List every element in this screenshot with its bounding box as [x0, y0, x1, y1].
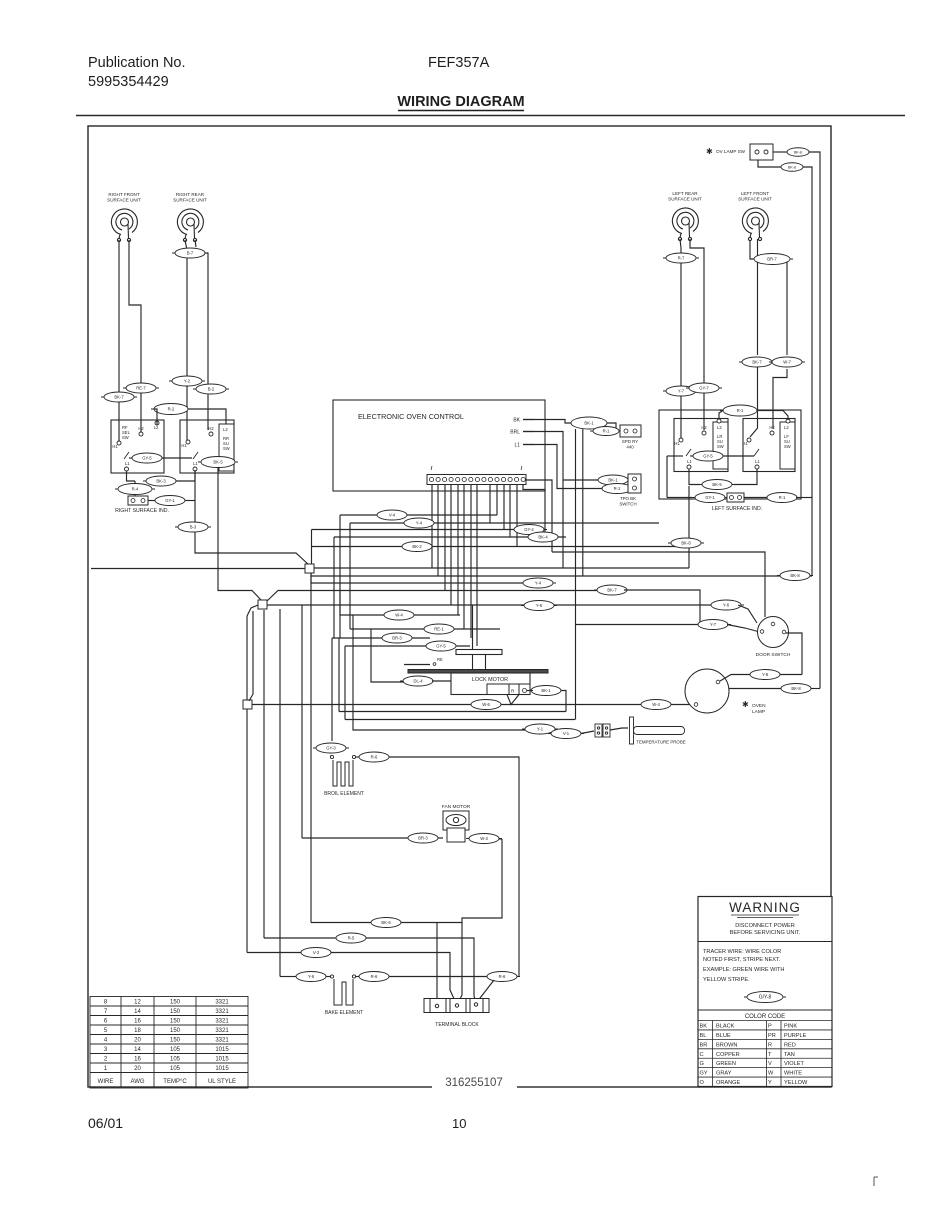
svg-text:105: 105 — [170, 1057, 181, 1063]
wire temp probe bus — [353, 728, 525, 730]
wire bus 605 — [263, 604, 714, 606]
wire LR coil H2 drop — [690, 239, 704, 430]
wire RR coil H2 drop — [205, 253, 208, 430]
svg-text:BK-6: BK-6 — [381, 920, 391, 925]
wire label BR-3 fan — [405, 833, 441, 843]
right rear switch box — [180, 420, 234, 473]
wire lock motor dip — [507, 695, 519, 705]
broil terminal right — [352, 755, 355, 758]
svg-text:150: 150 — [170, 1009, 181, 1015]
svg-text:H1: H1 — [112, 444, 118, 449]
pin H2 RR switch — [208, 426, 214, 436]
wire BK-5 down to node B — [218, 468, 262, 602]
temperature probe body — [630, 717, 685, 744]
wire label BK-8 right — [777, 571, 813, 581]
label SPD RY 440 — [622, 439, 638, 449]
svg-text:BR-3: BR-3 — [392, 636, 402, 641]
label left rear surface unit — [668, 191, 702, 202]
svg-text:Y-2: Y-2 — [184, 379, 191, 384]
svg-text:V-1: V-1 — [563, 731, 570, 736]
svg-text:BK-7: BK-7 — [607, 588, 617, 593]
svg-text:BK: BK — [513, 418, 520, 424]
wire label Y-6 bus605 — [521, 601, 557, 611]
wire eoc right exit — [526, 480, 552, 552]
pin H1 LF switch — [742, 438, 751, 446]
svg-text:BK-3: BK-3 — [156, 479, 166, 484]
svg-text:105: 105 — [170, 1047, 181, 1053]
svg-text:440: 440 — [626, 444, 634, 449]
color code divider — [698, 1009, 832, 1011]
wire bus 615 — [340, 614, 460, 616]
wire L1 to tpo — [523, 445, 602, 489]
svg-text:BK-1: BK-1 — [584, 421, 594, 426]
label right rear surface unit — [173, 192, 207, 203]
svg-text:14: 14 — [134, 1009, 141, 1015]
wire vertical 280 — [279, 609, 281, 977]
wire lamp BK-8 row — [729, 688, 781, 690]
svg-text:YELLOW STRIPE.: YELLOW STRIPE. — [703, 977, 750, 983]
svg-text:DL-4: DL-4 — [413, 679, 423, 684]
svg-text:UL STYLE: UL STYLE — [208, 1079, 236, 1085]
wire LR L1 long drop — [688, 486, 690, 568]
svg-text:B-3: B-3 — [190, 525, 197, 530]
wire BK-8 to vertical — [811, 688, 820, 690]
wire ov lamp sw bottom — [758, 160, 781, 167]
wire label R-6 bake left — [356, 972, 392, 982]
svg-text:LEFT FRONT: LEFT FRONT — [741, 191, 769, 196]
svg-text:V-3: V-3 — [313, 950, 320, 955]
wire label R-1 top — [720, 405, 760, 416]
svg-text:B-7: B-7 — [187, 251, 194, 256]
wire bus 583 — [311, 576, 547, 583]
svg-text:W-4: W-4 — [652, 702, 660, 707]
lock motor RE contact — [433, 657, 443, 665]
wire bus 922 — [311, 922, 462, 924]
svg-text:L2: L2 — [154, 425, 159, 430]
svg-text:H1: H1 — [742, 441, 748, 446]
lock motor shaft — [473, 655, 486, 670]
wire LF coil H2 drop lower — [773, 369, 787, 429]
wire to right vertical — [796, 497, 812, 499]
svg-text:R-6: R-6 — [371, 974, 378, 979]
wire label GY-3 — [313, 743, 349, 753]
wire eoc t8 drop — [476, 485, 478, 646]
wire vertical 575 upper — [575, 429, 577, 625]
svg-text:R-6: R-6 — [371, 755, 378, 760]
wire label Y-4 — [401, 518, 437, 528]
wire RF to RR arm — [162, 457, 192, 459]
junction node A — [305, 564, 314, 573]
wire label BK-7 left — [101, 392, 137, 402]
wire bus 638 — [332, 637, 430, 639]
wire DL-4 left — [371, 629, 404, 682]
wire vertical 302 — [301, 605, 303, 838]
wire label BK-8 lower — [778, 163, 806, 172]
svg-text:TPO BK: TPO BK — [620, 496, 636, 501]
svg-text:BLACK: BLACK — [716, 1024, 735, 1030]
wire eoc t2 drop — [437, 485, 439, 576]
svg-text:105: 105 — [170, 1066, 181, 1072]
warning text — [703, 949, 784, 983]
svg-text:3321: 3321 — [215, 1028, 229, 1034]
door switch — [758, 617, 789, 648]
svg-text:L2: L2 — [784, 425, 789, 430]
left switches outer box — [659, 410, 801, 499]
svg-text:150: 150 — [170, 1028, 181, 1034]
svg-text:LEFT REAR: LEFT REAR — [672, 191, 698, 196]
wire label tpo upper — [595, 475, 631, 485]
svg-text:GY-5: GY-5 — [436, 644, 446, 649]
svg-text:OV LAMP SW: OV LAMP SW — [716, 149, 746, 154]
wire label Y-8 — [747, 670, 783, 680]
wire bus 529 — [312, 529, 546, 531]
wire eoc t15 jog — [523, 485, 545, 537]
svg-text:GRAY: GRAY — [716, 1071, 732, 1077]
LR inner panel — [713, 422, 728, 469]
wire label GY-7 — [686, 383, 722, 393]
wire bus 938 — [264, 938, 476, 1002]
svg-text:BK-7: BK-7 — [114, 395, 124, 400]
wire door switch right — [786, 633, 802, 675]
wire L1 stub — [523, 444, 534, 446]
wire RF coil H2 drop — [129, 240, 141, 432]
svg-text:TAN: TAN — [784, 1052, 795, 1058]
wire label GY-5 bus — [423, 641, 459, 651]
wire bus 546 — [312, 546, 690, 548]
wire label BK-1 lock — [528, 686, 564, 696]
svg-text:SW: SW — [717, 444, 724, 449]
lock motor cam bar — [456, 650, 502, 655]
temperature probe plug — [595, 724, 610, 737]
wire R-2 label to RR panel — [188, 409, 226, 424]
svg-text:H2: H2 — [138, 426, 144, 431]
TPO BK connector — [628, 474, 641, 493]
wire bus 711 — [339, 711, 566, 713]
svg-text:L1: L1 — [193, 461, 198, 466]
wire label R-6 bake right — [484, 972, 520, 982]
oven lamp switch box — [750, 144, 773, 160]
svg-text:BK-8: BK-8 — [794, 151, 802, 155]
wire label to LF L2 — [757, 411, 788, 421]
wire label BK-6 — [368, 918, 404, 928]
svg-text:V: V — [768, 1061, 772, 1067]
warning divider — [698, 941, 832, 943]
wire bake to R-6 — [356, 976, 360, 978]
broil terminal left — [330, 755, 333, 758]
wire bus 537 — [334, 536, 566, 538]
wire GY-1 link — [185, 500, 195, 502]
svg-text:H2: H2 — [701, 425, 707, 430]
svg-text:WIRE: WIRE — [98, 1079, 114, 1085]
wire bus 568 — [309, 567, 689, 569]
svg-text:TERMINAL BLOCK: TERMINAL BLOCK — [435, 1022, 479, 1028]
wire bottom row left — [667, 497, 692, 499]
left rear switch box — [674, 419, 728, 472]
svg-text:BK-8: BK-8 — [681, 541, 691, 546]
svg-text:BK-7: BK-7 — [752, 360, 762, 365]
wire label Y-7 — [663, 386, 699, 396]
wire label Y-6 bake — [293, 972, 329, 982]
wire bus 552 to door switch — [689, 552, 765, 617]
svg-text:BK-5: BK-5 — [712, 482, 722, 487]
wire label Y-4 bus583 — [520, 578, 556, 588]
svg-text:18: 18 — [134, 1028, 141, 1034]
svg-text:Y: Y — [768, 1080, 772, 1086]
wire bus 590 — [267, 591, 600, 602]
left front switch box — [743, 419, 795, 472]
wire label BK-2 — [399, 542, 435, 552]
wire bus 624 — [576, 624, 701, 626]
wire indicator to GY-1 — [148, 500, 155, 502]
label left front surface unit — [738, 191, 772, 202]
lock motor body — [451, 673, 530, 695]
svg-text:BK-1: BK-1 — [541, 688, 551, 693]
svg-text:R-1: R-1 — [603, 429, 610, 434]
wire label GY-4 — [511, 525, 547, 535]
svg-text:L1: L1 — [514, 443, 520, 449]
svg-text:BK-4: BK-4 — [538, 535, 548, 540]
pin H1 RF switch — [112, 441, 121, 449]
wire bus 515 left drop — [339, 515, 341, 615]
label TPO BK switch — [619, 496, 636, 506]
wire label BK-8 mid — [668, 538, 704, 548]
wire broil to R-6 — [356, 756, 360, 758]
LR switch L1 arm — [686, 449, 692, 469]
lock motor R box — [487, 684, 530, 695]
svg-text:10: 10 — [452, 1116, 466, 1131]
svg-text:PR: PR — [768, 1033, 776, 1039]
wire label Y-7 door — [695, 620, 731, 630]
wire label BK-1 spd — [568, 417, 610, 429]
svg-text:T: T — [768, 1052, 772, 1058]
svg-text:TRACER WIRE: WIRE COLOR: TRACER WIRE: WIRE COLOR — [703, 949, 781, 955]
warning box — [698, 897, 832, 1087]
wire label RE-1 — [421, 624, 457, 634]
wire vertical 345 — [344, 646, 346, 720]
wire broil drop — [331, 638, 333, 741]
wire label W-7 — [769, 357, 805, 367]
svg-text:R-4: R-4 — [132, 487, 139, 492]
svg-text:Y-4: Y-4 — [416, 521, 423, 526]
svg-text:COLOR CODE: COLOR CODE — [745, 1014, 785, 1020]
svg-text:BAKE ELEMENT: BAKE ELEMENT — [325, 1010, 363, 1016]
wire label GY-1 — [152, 496, 188, 506]
wire BRL stub — [523, 431, 534, 433]
svg-text:150: 150 — [170, 1038, 181, 1044]
svg-text:L2: L2 — [717, 425, 722, 430]
warning subtitle — [730, 923, 801, 936]
part number background — [432, 1073, 517, 1090]
wire vertical 339 — [338, 638, 340, 712]
svg-text:LOCK MOTOR: LOCK MOTOR — [472, 677, 508, 683]
pin H2 RF switch — [138, 426, 144, 436]
svg-text:TEMP°C: TEMP°C — [163, 1079, 187, 1085]
wire eoc t5 drop — [457, 485, 459, 615]
wire BK to SPD RY — [523, 420, 571, 424]
SPD RY connector — [620, 425, 641, 437]
wire Y-8 right — [780, 674, 802, 676]
wire bus 590 left drop — [339, 590, 341, 638]
svg-text:H1: H1 — [674, 441, 680, 446]
right front selector switch box — [111, 420, 164, 473]
wire label BR-3 bus — [379, 633, 415, 643]
svg-text:BR-7: BR-7 — [767, 257, 777, 262]
svg-text:L1: L1 — [125, 461, 130, 466]
svg-text:Y-8: Y-8 — [762, 672, 769, 677]
fan motor — [443, 811, 469, 842]
svg-text:20: 20 — [134, 1066, 141, 1072]
wire left drop — [666, 456, 668, 498]
wire label RE-7 — [123, 383, 159, 393]
right surface indicator box — [128, 496, 148, 505]
svg-text:Publication No.: Publication No. — [88, 55, 186, 71]
wire fan left — [302, 837, 443, 839]
wire vertical 264 — [263, 610, 265, 938]
wire label R-5 — [333, 933, 369, 943]
wire label W-3 — [466, 834, 502, 844]
svg-text:5995354429: 5995354429 — [88, 74, 169, 90]
svg-text:12: 12 — [134, 1000, 141, 1006]
EOC terminal strip — [427, 475, 526, 485]
wire bus 605 right — [738, 605, 757, 623]
wire BK-3 to RR L1 — [176, 471, 195, 481]
wire RR L1 drop to node A — [195, 470, 309, 565]
wire bake left — [280, 976, 296, 978]
svg-text:R-6: R-6 — [499, 974, 506, 979]
wire left stub — [667, 455, 683, 457]
wire lock cam up — [472, 605, 474, 650]
wire eoc t3 drop — [444, 485, 446, 590]
wire temp link — [555, 729, 563, 733]
wire block pin1 drop — [436, 923, 438, 1005]
lock motor top bar — [408, 670, 548, 674]
svg-text:1015: 1015 — [215, 1066, 229, 1072]
svg-text:BK-8: BK-8 — [790, 573, 800, 578]
wire BK-1 right down — [561, 691, 566, 712]
svg-text:W-3: W-3 — [480, 836, 488, 841]
wire label Y-1 — [522, 724, 558, 734]
svg-text:PURPLE: PURPLE — [784, 1033, 807, 1039]
wire to probe plug — [581, 731, 594, 734]
wire L2 to R-2 label — [154, 409, 157, 425]
svg-text:L2: L2 — [223, 427, 228, 432]
svg-text:YELLOW: YELLOW — [784, 1080, 808, 1086]
svg-text:R-7: R-7 — [678, 256, 685, 261]
svg-text:1015: 1015 — [215, 1047, 229, 1053]
wire fan right to block pin2 — [458, 839, 502, 1003]
pin H1 RR switch — [181, 440, 190, 448]
svg-text:✱: ✱ — [742, 700, 749, 709]
svg-text:Y-6: Y-6 — [536, 603, 543, 608]
svg-text:Y-1: Y-1 — [537, 727, 544, 732]
broil element — [333, 760, 353, 786]
svg-text:GY-5: GY-5 — [142, 456, 152, 461]
wire LF coil left jog — [750, 240, 754, 259]
wire label BK-4 — [525, 532, 561, 542]
wire label BK-5 left — [198, 457, 238, 468]
svg-text:P: P — [768, 1024, 772, 1030]
svg-text:14: 14 — [134, 1047, 141, 1053]
wire label tpo lower — [599, 484, 635, 494]
wire label R-1 lower — [764, 493, 800, 503]
wire broil stub — [330, 755, 332, 756]
wire bus 552 — [552, 551, 689, 553]
wire BK stub — [523, 419, 534, 421]
junction node C — [243, 700, 252, 709]
svg-text:R-2: R-2 — [168, 407, 175, 412]
wire BK-3 row to R-4 — [134, 481, 136, 484]
svg-text:SW: SW — [223, 446, 230, 451]
svg-text:BR: BR — [700, 1042, 708, 1048]
svg-text:R-1: R-1 — [614, 486, 621, 491]
svg-text:16: 16 — [134, 1019, 141, 1025]
svg-text:BR-3: BR-3 — [418, 836, 428, 841]
LF inner panel — [780, 422, 795, 469]
wire label BK-5 right — [699, 480, 735, 490]
svg-text:RIGHT FRONT: RIGHT FRONT — [108, 192, 139, 197]
svg-text:BEFORE SERVICING UNIT.: BEFORE SERVICING UNIT. — [730, 930, 801, 936]
svg-text:H1: H1 — [181, 443, 187, 448]
wire label Y-6 bus — [708, 600, 744, 610]
wire eoc t14 drop — [516, 485, 518, 546]
wire node B left link — [247, 605, 258, 616]
EOC terminal circles — [429, 466, 525, 482]
oven lamp switch label — [706, 147, 746, 156]
svg-text:BLUE: BLUE — [716, 1033, 731, 1039]
svg-text:LEFT SURFACE IND.: LEFT SURFACE IND. — [712, 506, 762, 512]
svg-text:SURFACE UNIT: SURFACE UNIT — [107, 198, 141, 203]
header publication number — [88, 55, 186, 90]
wire label Y-2 — [169, 376, 205, 386]
wire eoc t6 drop — [463, 485, 465, 629]
title underline — [398, 110, 524, 112]
wire LR L1 down — [689, 469, 700, 485]
svg-text:GY-5: GY-5 — [703, 454, 713, 459]
svg-text:PINK: PINK — [784, 1024, 797, 1030]
oven lamp label — [742, 700, 766, 715]
wire BK-5 to LF L1 — [734, 469, 757, 485]
wire bus 515 — [340, 514, 497, 516]
svg-text:WHITE: WHITE — [784, 1071, 802, 1077]
wire label B-7 — [172, 248, 208, 258]
svg-text:GREEN: GREEN — [716, 1061, 736, 1067]
svg-text:ELECTRONIC OVEN CONTROL: ELECTRONIC OVEN CONTROL — [358, 412, 464, 421]
wire label BK-7 right — [739, 357, 775, 367]
svg-text:W-6: W-6 — [482, 702, 490, 707]
wire ov lamp sw to label — [773, 151, 787, 153]
svg-text:GY: GY — [700, 1071, 708, 1077]
wire eoc t1 drop — [431, 485, 433, 568]
svg-text:SWITCH: SWITCH — [619, 501, 636, 506]
svg-text:Y-6: Y-6 — [723, 603, 730, 608]
svg-text:RE-7: RE-7 — [136, 386, 146, 391]
wire label V-1 — [548, 729, 584, 739]
wire spd link — [607, 423, 616, 428]
pin L2 LR switch — [717, 419, 721, 423]
svg-text:V-4: V-4 — [389, 513, 396, 518]
wire gauge table — [90, 997, 248, 1089]
svg-text:LAMP: LAMP — [752, 709, 765, 715]
bake element — [334, 979, 353, 1005]
svg-text:GY-4: GY-4 — [524, 527, 534, 532]
wire label BR-7 — [751, 254, 793, 265]
left surface indicator box — [727, 493, 744, 502]
wire bus oven lamp — [252, 704, 694, 706]
svg-text:1015: 1015 — [215, 1057, 229, 1063]
wire bus 576 — [311, 573, 812, 576]
electronic oven control box — [333, 400, 545, 491]
junction node B — [258, 600, 267, 609]
